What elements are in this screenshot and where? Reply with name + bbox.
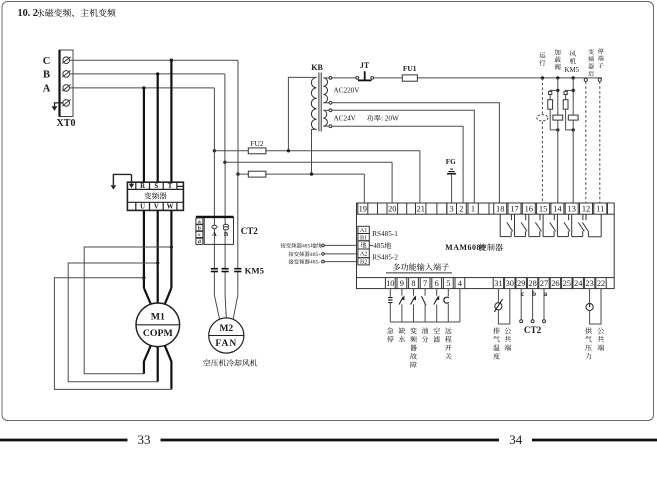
svg-text:U: U [140, 204, 145, 211]
svg-text:1: 1 [471, 205, 475, 214]
svg-text:8: 8 [411, 279, 415, 288]
svg-text:AC24V: AC24V [334, 114, 357, 122]
svg-text:FAN: FAN [215, 339, 237, 349]
svg-text:b: b [198, 226, 201, 232]
svg-text:FU1: FU1 [403, 64, 417, 73]
svg-text:A2: A2 [360, 251, 368, 258]
svg-text:2: 2 [459, 205, 463, 214]
svg-text:33: 33 [138, 432, 151, 447]
svg-text:KM5: KM5 [565, 67, 580, 74]
svg-text:XT0: XT0 [57, 118, 76, 129]
svg-text:W: W [167, 204, 174, 211]
svg-text:485+: 485+ [310, 252, 322, 258]
svg-text:RS485-2: RS485-2 [372, 254, 398, 262]
svg-text:13: 13 [568, 205, 576, 214]
svg-text:34: 34 [509, 432, 523, 447]
svg-text:28: 28 [528, 279, 536, 288]
svg-text:20: 20 [388, 205, 396, 214]
svg-text:RS485-1: RS485-1 [372, 230, 398, 238]
svg-text:11: 11 [596, 205, 604, 214]
svg-text:10: 10 [386, 279, 394, 288]
svg-text:CT2: CT2 [241, 226, 259, 236]
svg-text:FU2: FU2 [250, 139, 264, 148]
svg-text:JT: JT [360, 61, 370, 70]
svg-text:485: 485 [373, 242, 384, 250]
svg-text:T: T [168, 183, 173, 190]
svg-text:29: 29 [517, 279, 525, 288]
svg-text:A1: A1 [360, 227, 368, 234]
svg-text:26: 26 [551, 279, 559, 288]
svg-text:6: 6 [435, 279, 439, 288]
svg-text:M1: M1 [151, 312, 165, 323]
svg-text:CT2: CT2 [524, 325, 542, 335]
svg-text:14: 14 [553, 205, 562, 214]
svg-text:AC220V: AC220V [334, 87, 361, 95]
svg-text:22: 22 [597, 279, 605, 288]
svg-text:R: R [140, 183, 145, 190]
svg-text:a: a [544, 289, 548, 298]
svg-text:485: 485 [302, 243, 311, 249]
svg-text:b: b [532, 289, 536, 298]
svg-text:C: C [43, 56, 51, 67]
svg-text:9: 9 [400, 279, 404, 288]
svg-text:23: 23 [585, 279, 593, 288]
svg-text:B: B [224, 231, 229, 238]
svg-text:18: 18 [496, 205, 504, 214]
svg-text:M2: M2 [219, 324, 233, 334]
svg-text:A: A [212, 231, 217, 238]
svg-text:31: 31 [494, 279, 502, 288]
svg-text:B: B [43, 70, 50, 81]
svg-text:19: 19 [359, 205, 367, 214]
svg-text:3: 3 [450, 205, 454, 214]
svg-text:7: 7 [423, 279, 427, 288]
svg-text:KM5: KM5 [245, 265, 265, 275]
svg-text:30: 30 [506, 279, 514, 288]
svg-text:S: S [154, 183, 158, 190]
svg-text:A: A [43, 84, 51, 95]
svg-text:24: 24 [574, 279, 583, 288]
svg-text:FG: FG [446, 158, 456, 166]
svg-text:: 20W: : 20W [381, 114, 399, 122]
svg-text:15: 15 [539, 205, 547, 214]
svg-text:27: 27 [540, 279, 548, 288]
svg-text:B1: B1 [360, 234, 367, 241]
svg-text:12: 12 [582, 205, 590, 214]
svg-text:25: 25 [563, 279, 571, 288]
svg-text:5: 5 [446, 279, 450, 288]
svg-text:21: 21 [417, 205, 425, 214]
svg-text:485-: 485- [310, 260, 320, 266]
svg-text:B2: B2 [360, 258, 367, 265]
svg-text:17: 17 [510, 205, 518, 214]
svg-text:KB: KB [311, 63, 323, 72]
svg-text:COPM: COPM [143, 328, 173, 339]
svg-text:V: V [154, 204, 159, 211]
svg-text:MAM6080: MAM6080 [445, 243, 485, 252]
svg-text:10. 2: 10. 2 [18, 8, 38, 19]
svg-text:16: 16 [525, 205, 533, 214]
svg-text:a: a [198, 219, 201, 225]
svg-text:d: d [198, 239, 201, 245]
